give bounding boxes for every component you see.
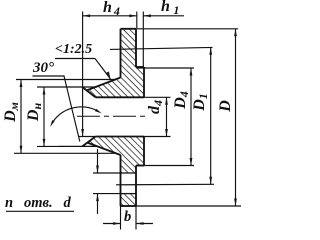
label D1 xyxy=(191,82,211,122)
arc arrow left xyxy=(50,120,55,127)
ring left face lower xyxy=(120,155,122,206)
label Dm xyxy=(2,92,22,132)
Dn arrow up xyxy=(43,87,46,95)
outer taper upper xyxy=(87,78,121,91)
label D4 xyxy=(172,80,192,120)
tier1 extension up xyxy=(142,12,144,68)
D extension upper xyxy=(137,28,238,30)
label Dn xyxy=(25,92,45,132)
30deg leader xyxy=(64,76,80,142)
D1 arrow down xyxy=(209,177,212,185)
ring top edge xyxy=(121,28,137,30)
label D xyxy=(217,86,235,126)
d4 arrow up xyxy=(165,97,168,105)
bolt d lower tail xyxy=(97,194,99,214)
label h4 xyxy=(103,0,120,19)
hatched flange section upper xyxy=(87,29,144,98)
b dim left tail xyxy=(103,223,121,225)
label d4 xyxy=(146,87,166,127)
Dn arrow down xyxy=(43,139,46,147)
taper leader xyxy=(95,59,111,80)
angle arc xyxy=(53,107,97,123)
label 30 deg xyxy=(33,60,54,77)
step1 upper xyxy=(136,66,144,68)
arrowheads xyxy=(20,14,237,225)
bolt hole lower edge xyxy=(121,193,137,195)
ring right face lower xyxy=(135,166,137,207)
h4 arrow right xyxy=(129,14,137,17)
hatched flange section lower xyxy=(87,137,144,174)
bolt d arrow up xyxy=(96,194,99,202)
h1 arrow left xyxy=(143,14,151,17)
Dm extension lower / taper ref lower xyxy=(14,152,116,154)
cone start vertical dim xyxy=(82,12,84,137)
tier1 face upper xyxy=(143,67,145,97)
hatched section below bolt hole xyxy=(121,194,137,206)
h4 arrow left xyxy=(83,14,91,17)
d4 dimension line xyxy=(166,97,168,136)
D dimension line xyxy=(235,29,237,206)
b arrow right xyxy=(113,222,121,225)
cone start arrow down xyxy=(81,129,84,137)
h1 dimension tail xyxy=(143,15,184,17)
bolt hole upper edge xyxy=(121,172,137,174)
arc arrow right xyxy=(95,109,102,114)
cone 30deg lower xyxy=(82,137,95,147)
D arrow up xyxy=(234,29,237,37)
bolt axis upper xyxy=(110,47,213,49)
bore upper xyxy=(96,96,145,98)
d4 extension upper (bore ext) xyxy=(144,96,171,98)
D arrow down xyxy=(234,199,237,207)
label h1 xyxy=(161,0,179,18)
Dn extension lower xyxy=(37,145,59,147)
taper label underline xyxy=(55,58,95,60)
label taper 1:2.5 xyxy=(55,42,92,58)
Dm arrow down xyxy=(20,146,23,154)
Dm arrow up xyxy=(20,80,23,88)
bolt d upper tail xyxy=(97,149,99,173)
centerline xyxy=(77,115,145,117)
step1 lower xyxy=(136,165,144,167)
30deg shelf xyxy=(33,75,65,77)
D1 arrow up xyxy=(209,47,212,55)
Dn dimension line xyxy=(43,87,45,146)
cone 30deg upper xyxy=(82,87,95,97)
socket mouth upper xyxy=(59,86,97,88)
n otv d underline xyxy=(6,210,74,212)
D4 extension upper xyxy=(137,67,195,69)
D extension lower xyxy=(137,205,242,207)
b arrow left xyxy=(136,222,144,225)
d4 arrow down xyxy=(165,129,168,137)
ring bottom edge xyxy=(121,205,137,207)
d4 extension lower (bore ext) xyxy=(144,136,171,138)
bolt hole lower ext left xyxy=(93,193,121,195)
bore lower left extension xyxy=(79,136,96,138)
Dm dimension line xyxy=(20,80,22,154)
outer taper lower xyxy=(87,143,121,156)
taper leader arrow xyxy=(106,72,110,80)
label b xyxy=(124,209,131,226)
tier1 face lower xyxy=(143,137,145,166)
ring left face upper xyxy=(120,29,122,78)
bolt axis lower xyxy=(116,183,214,186)
ring right face upper xyxy=(135,29,137,67)
b dim right tail xyxy=(136,223,153,225)
h dimension line xyxy=(83,15,137,17)
bore lower xyxy=(96,136,145,138)
bolt d arrow down xyxy=(96,166,99,174)
bolt hole upper ext left xyxy=(93,172,121,174)
b extension left xyxy=(120,206,122,230)
D4 extension lower xyxy=(137,165,195,167)
D4 arrow down xyxy=(190,158,193,166)
b extension right xyxy=(135,206,137,230)
socket mouth lower xyxy=(59,145,97,147)
ring right extension up xyxy=(136,12,138,29)
Dm extension upper / taper ref upper xyxy=(16,79,115,81)
D1 dimension line xyxy=(210,47,212,184)
Dn extension upper xyxy=(37,86,59,88)
label n otv d xyxy=(5,195,71,212)
D4 dimension line xyxy=(190,68,192,166)
D4 arrow up xyxy=(190,68,193,76)
